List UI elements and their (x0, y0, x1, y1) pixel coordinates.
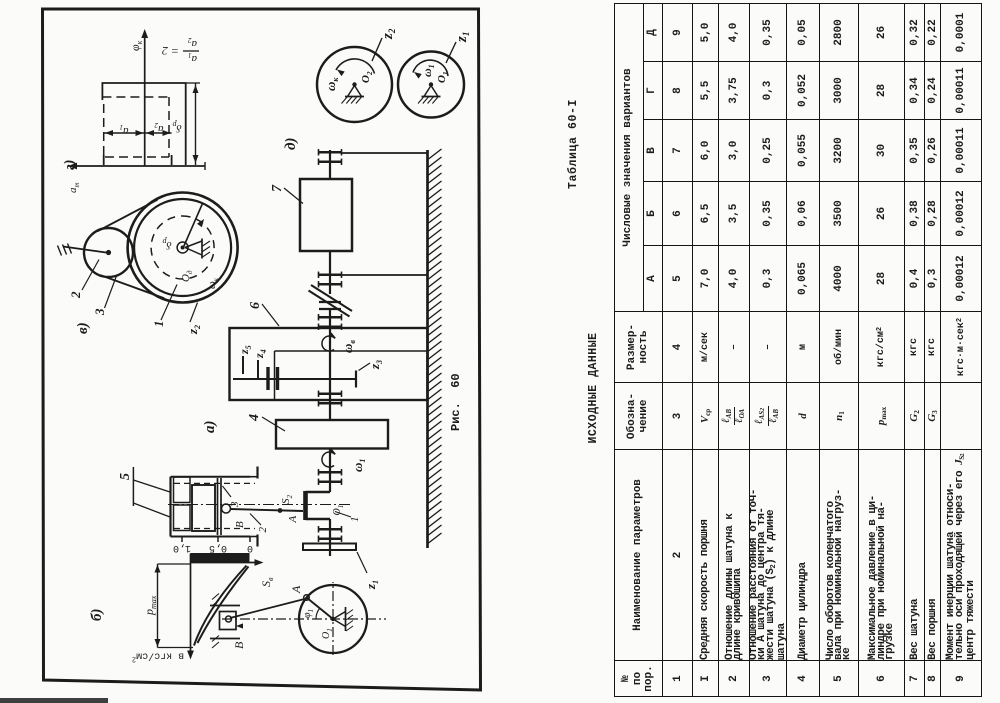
svg-text:φк: φк (128, 40, 144, 51)
svg-text:ωв: ωв (340, 340, 357, 353)
svg-text:δр: δр (162, 237, 171, 251)
svg-text:Sв: Sв (259, 577, 275, 587)
svg-text:2: 2 (68, 291, 83, 299)
svg-text:1,0: 1,0 (173, 542, 191, 553)
svg-text:А: А (287, 516, 299, 524)
svg-text:z2: z2 (380, 28, 397, 40)
svg-text:2: 2 (257, 527, 269, 533)
svg-text:Рис. 60: Рис. 60 (449, 373, 463, 431)
svg-text:z4: z4 (252, 349, 268, 359)
svg-text:z2: z2 (185, 325, 202, 335)
svg-text:3: 3 (229, 501, 241, 508)
svg-text:в кгс/см2: в кгс/см2 (132, 650, 184, 663)
svg-text:3: 3 (92, 308, 107, 316)
svg-text:S2: S2 (280, 495, 294, 505)
svg-text:pmax: pmax (142, 595, 158, 616)
svg-text:0: 0 (247, 542, 253, 553)
svg-text:δр: δр (172, 120, 181, 134)
svg-text:А: А (289, 585, 303, 594)
svg-text:ωк: ωк (323, 77, 340, 91)
svg-text:а): а) (202, 421, 218, 434)
svg-text:6: 6 (248, 302, 263, 309)
svg-text:ω1: ω1 (420, 64, 436, 77)
svg-text:О2: О2 (360, 71, 374, 83)
svg-text:в): в) (75, 322, 91, 334)
svg-text:0,5: 0,5 (209, 542, 227, 553)
svg-text:= 2: = 2 (162, 44, 179, 58)
svg-text:φ1: φ1 (302, 609, 315, 618)
svg-text:z5: z5 (237, 345, 253, 355)
svg-text:Од: Од (180, 270, 194, 282)
svg-text:4: 4 (247, 414, 262, 422)
svg-text:a2: a2 (188, 36, 198, 50)
svg-text:7: 7 (270, 184, 285, 192)
svg-text:О1: О1 (321, 628, 334, 639)
svg-text:a1: a1 (120, 123, 129, 137)
svg-text:В: В (234, 521, 246, 528)
svg-text:ωк: ωк (206, 277, 220, 289)
svg-text:z1: z1 (363, 580, 380, 590)
svg-text:ω1: ω1 (350, 459, 367, 472)
svg-text:a1: a1 (188, 51, 197, 65)
svg-text:z1: z1 (454, 32, 471, 43)
svg-text:z3: z3 (367, 360, 384, 370)
svg-text:1: 1 (151, 321, 166, 328)
svg-text:д): д) (283, 138, 299, 150)
svg-text:б): б) (89, 609, 105, 621)
svg-text:aт: aт (67, 182, 81, 193)
svg-text:5: 5 (118, 473, 133, 480)
svg-text:В: В (232, 641, 246, 649)
